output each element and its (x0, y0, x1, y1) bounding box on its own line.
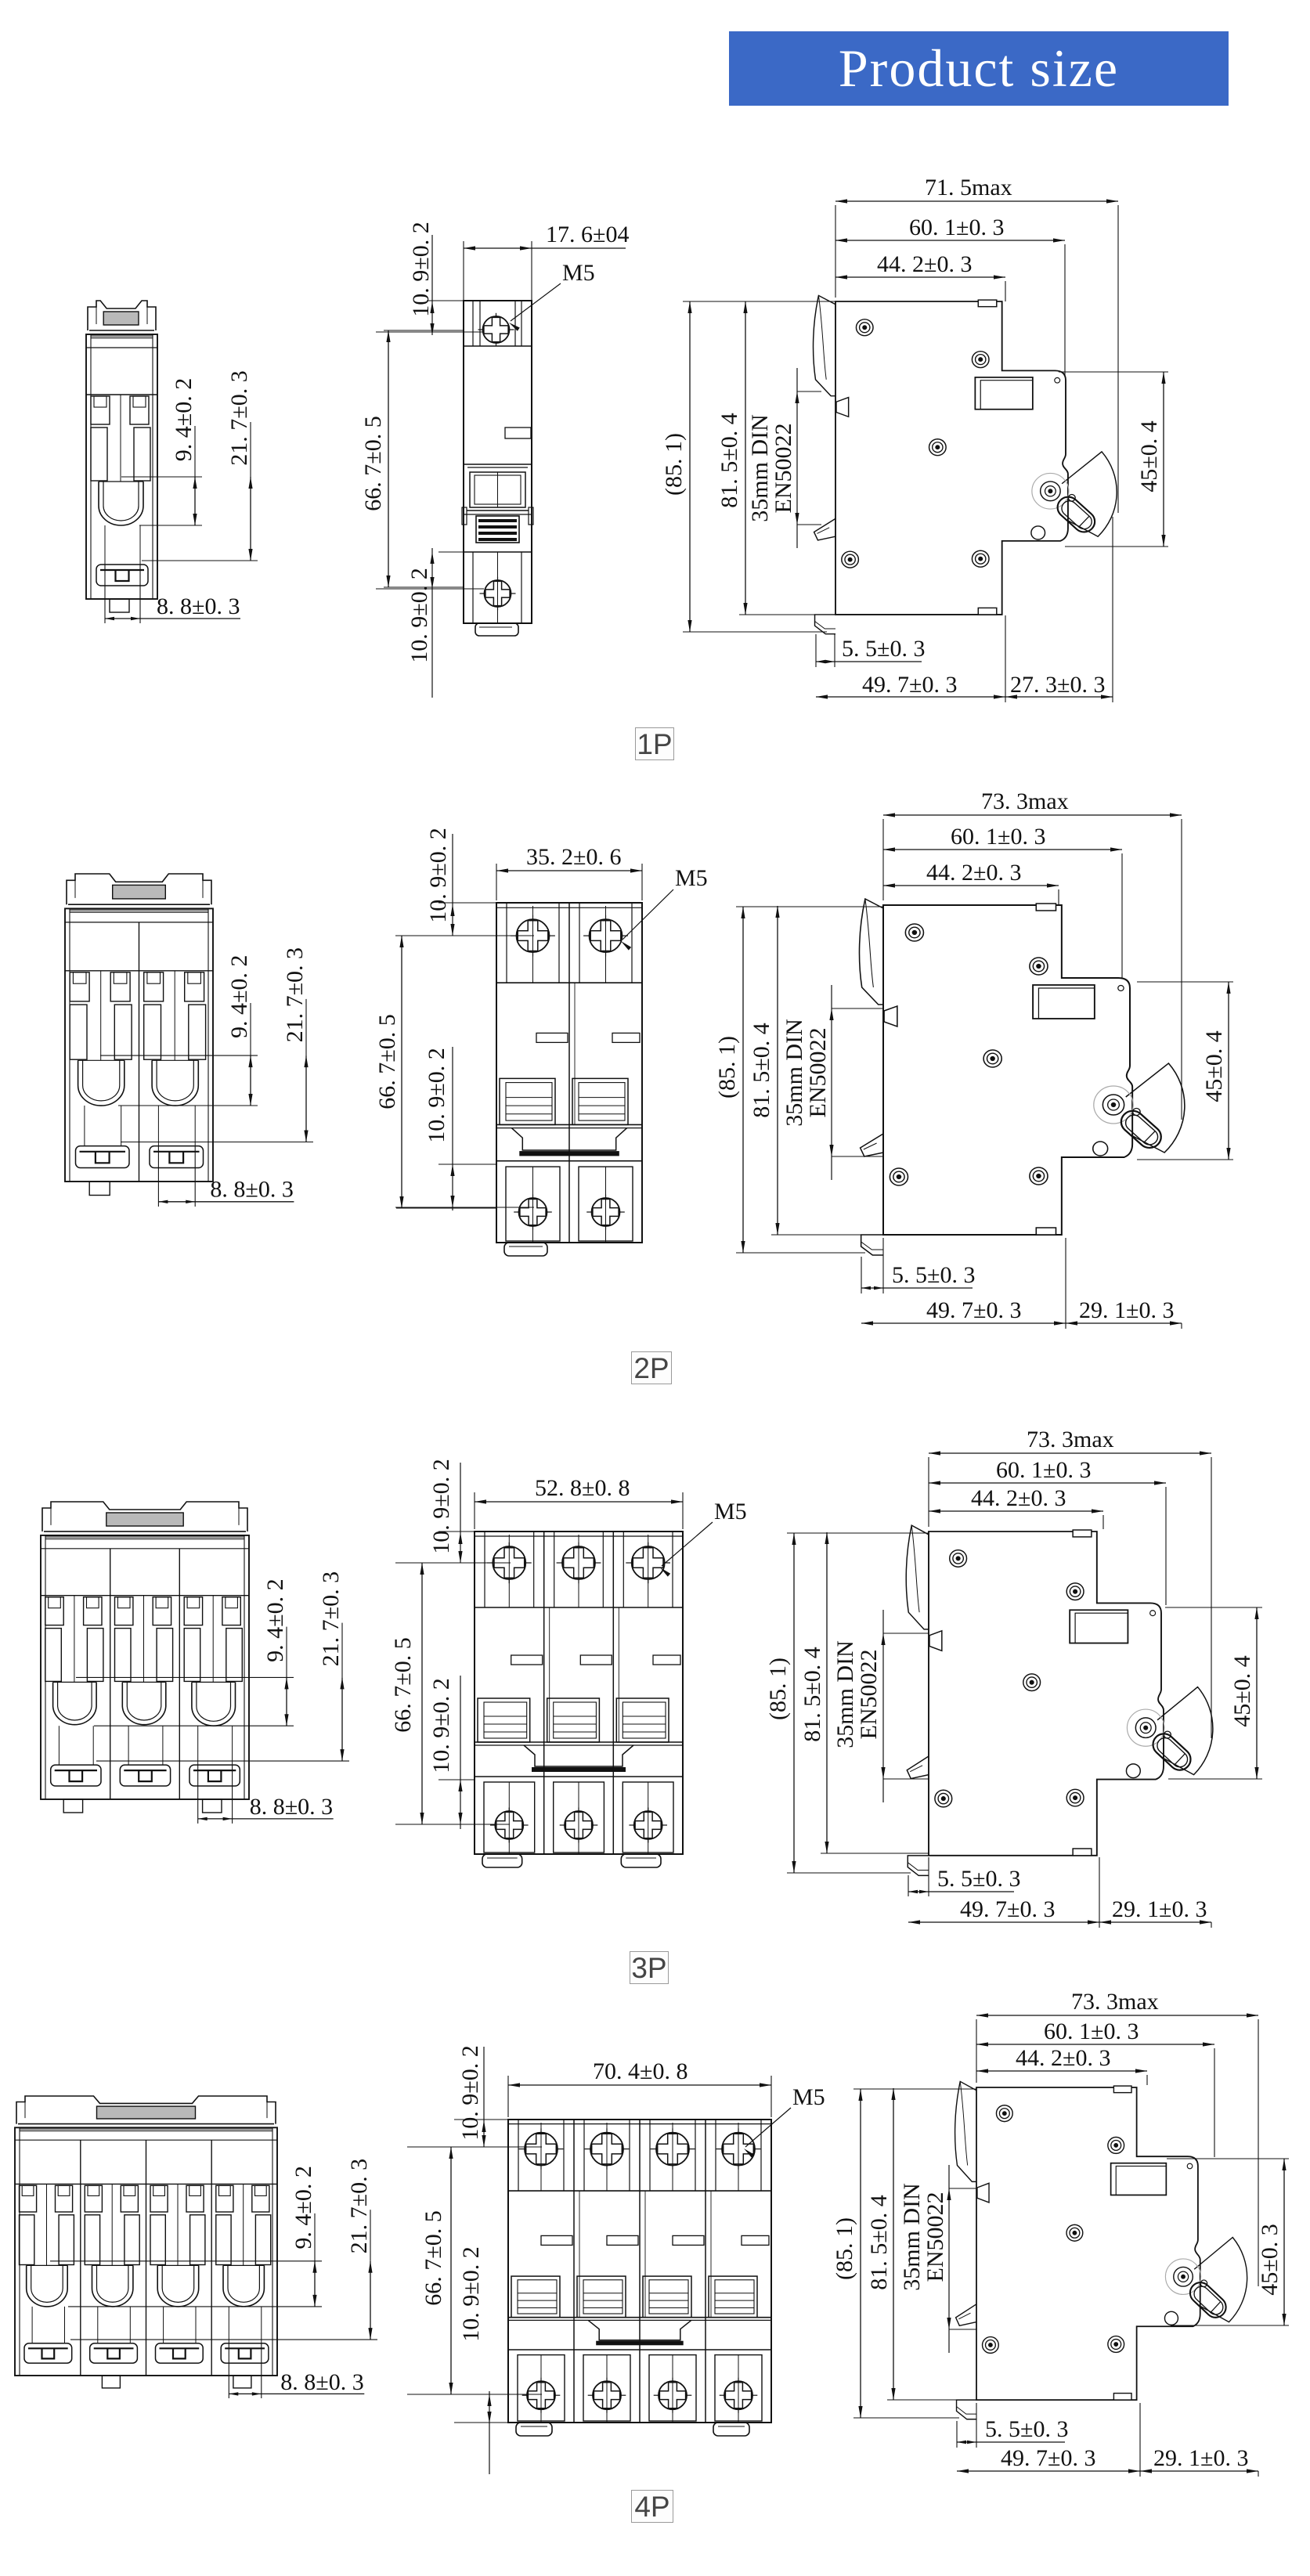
DIN clip foot (908, 1856, 929, 1876)
mounting tab (713, 2423, 749, 2436)
svg-text:66. 7±0. 5: 66. 7±0. 5 (374, 1014, 400, 1109)
bottom tab (233, 2376, 251, 2388)
lower terminal block (506, 1167, 560, 1241)
svg-text:8. 8±0. 3: 8. 8±0. 3 (280, 2369, 363, 2395)
4P front dims (507, 2076, 509, 2117)
dim 9.4 (121, 476, 202, 478)
bottom notch (1073, 1849, 1092, 1856)
svg-text:81. 5±0. 4: 81. 5±0. 4 (799, 1647, 825, 1741)
rivet 5 (972, 550, 989, 567)
arc chute stack (500, 1078, 555, 1124)
rivet 5 (1108, 2336, 1124, 2353)
1P front view (464, 301, 532, 623)
arc chute stack (643, 2276, 691, 2318)
terminal screw top (483, 316, 510, 343)
svg-text:(85. 1): (85. 1) (765, 1658, 791, 1720)
svg-text:35. 2±0. 6: 35. 2±0. 6 (526, 844, 621, 870)
rivet 4 (935, 1790, 952, 1807)
toggle sector (1126, 1063, 1185, 1153)
4P side view (955, 2081, 1247, 2419)
DIN clip foot (957, 2400, 976, 2419)
svg-text:5. 5±0. 3: 5. 5±0. 3 (985, 2416, 1068, 2442)
4P side dims (853, 2088, 976, 2090)
svg-text:49. 7±0. 3: 49. 7±0. 3 (1001, 2445, 1095, 2471)
svg-text:5. 5±0. 3: 5. 5±0. 3 (937, 1866, 1020, 1892)
top notch (1036, 904, 1056, 911)
DIN rail clip top hook (859, 899, 883, 1005)
svg-text:M5: M5 (562, 260, 595, 286)
rivet 1 (950, 1550, 967, 1568)
svg-text:5. 5±0. 3: 5. 5±0. 3 (892, 1262, 975, 1288)
dim 21.7 (142, 560, 258, 561)
bottom tab (63, 1799, 82, 1813)
top notch (1113, 2086, 1131, 2093)
vent slots (536, 1033, 568, 1042)
toggle handle (1117, 1106, 1166, 1153)
lower terminal block (518, 2355, 565, 2421)
latch tabs (70, 972, 89, 1001)
terminal screw bottom (485, 580, 511, 607)
terminal channels (184, 1629, 200, 1682)
toggle sector (1194, 2237, 1247, 2322)
svg-text:45±0. 4: 45±0. 4 (1136, 420, 1162, 492)
dim 21.7 (121, 1142, 313, 1143)
svg-text:66. 7±0. 5: 66. 7±0. 5 (360, 416, 386, 511)
terminal channels (144, 1005, 161, 1059)
mounting tab (621, 1854, 661, 1867)
mounting tab (516, 2423, 552, 2436)
svg-text:60. 1±0. 3: 60. 1±0. 3 (951, 824, 1045, 850)
svg-text:60. 1±0. 3: 60. 1±0. 3 (1044, 2019, 1139, 2044)
DIN clip (88, 301, 156, 330)
bottom notch (1113, 2394, 1131, 2401)
DIN clip foot (861, 1235, 883, 1255)
svg-text:29. 1±0. 3: 29. 1±0. 3 (1153, 2445, 1248, 2471)
DIN rail clip top hook (906, 1525, 929, 1629)
terminal channels (70, 1005, 87, 1059)
3P side dims (787, 1532, 929, 1534)
svg-text:45±0. 4: 45±0. 4 (1201, 1030, 1227, 1102)
terminal channels (85, 2215, 99, 2265)
wire loop (192, 1682, 236, 1726)
lower terminal block (623, 1782, 673, 1853)
body outline (65, 908, 213, 1182)
rivet 1 (905, 924, 923, 941)
svg-text:45±0. 3: 45±0. 3 (1257, 2224, 1283, 2295)
svg-text:9. 4±0. 2: 9. 4±0. 2 (291, 2166, 316, 2249)
latch tabs (150, 2185, 168, 2212)
dim 9.4 (76, 1676, 294, 1678)
arc chute stack (572, 1078, 628, 1124)
dim 8.8 (197, 1765, 199, 1824)
svg-text:M5: M5 (714, 1499, 747, 1524)
svg-text:17. 6±04: 17. 6±04 (546, 222, 629, 247)
svg-text:44. 2±0. 3: 44. 2±0. 3 (971, 1485, 1066, 1511)
pole divider (573, 2120, 575, 2423)
toggle handle (1053, 492, 1099, 536)
svg-text:60. 1±0. 3: 60. 1±0. 3 (996, 1457, 1091, 1483)
bottom tab (102, 2376, 120, 2388)
svg-text:10. 9±0. 2: 10. 9±0. 2 (425, 828, 451, 922)
label window (1111, 2163, 1167, 2195)
svg-text:35mm DIN: 35mm DIN (781, 1019, 807, 1127)
bottom block (24, 2343, 72, 2363)
DIN clip (67, 874, 211, 904)
bottom tab (203, 1799, 222, 1813)
terminal channels (91, 428, 107, 481)
svg-text:9. 4±0. 2: 9. 4±0. 2 (262, 1578, 288, 1661)
terminal screw (590, 2133, 623, 2166)
svg-text:M5: M5 (792, 2084, 825, 2110)
bottom block (90, 2343, 138, 2363)
2P front dims (496, 864, 497, 900)
svg-text:52. 8±0. 8: 52. 8±0. 8 (535, 1475, 630, 1501)
svg-text:66. 7±0. 5: 66. 7±0. 5 (390, 1637, 416, 1732)
wire loop (53, 1682, 97, 1724)
svg-text:44. 2±0. 3: 44. 2±0. 3 (926, 860, 1021, 886)
toggle handle (476, 516, 519, 543)
toggle tie bar (524, 1745, 633, 1766)
rivet 1 (856, 319, 873, 336)
svg-text:21. 7±0. 3: 21. 7±0. 3 (226, 370, 252, 465)
svg-text:(85. 1): (85. 1) (714, 1036, 740, 1099)
svg-text:81. 5±0. 4: 81. 5±0. 4 (716, 413, 742, 507)
DIN rail clip top hook (814, 295, 835, 395)
DIN clip foot (815, 615, 835, 634)
rivet 3 (983, 1050, 1001, 1067)
toggle sector (1157, 1687, 1213, 1775)
3P side view (906, 1525, 1213, 1875)
latch tabs (184, 1597, 202, 1625)
svg-text:35mm DIN: 35mm DIN (832, 1640, 858, 1748)
DIN clip latch (977, 2183, 989, 2203)
arc chute stack (478, 1698, 530, 1742)
3P front view (475, 1532, 683, 1854)
DIN clip latch (884, 1006, 897, 1026)
svg-text:EN50022: EN50022 (856, 1650, 882, 1740)
1P front dims (463, 241, 464, 301)
svg-text:EN50022: EN50022 (922, 2192, 948, 2282)
bottom block (51, 1765, 101, 1786)
svg-text:71. 5max: 71. 5max (925, 175, 1012, 200)
terminal channels (150, 2215, 165, 2265)
2P side dims (736, 906, 883, 907)
svg-text:44. 2±0. 3: 44. 2±0. 3 (877, 251, 972, 277)
bottom notch (978, 608, 997, 615)
lower terminal (472, 552, 474, 623)
dim 21.7 (70, 2339, 377, 2340)
svg-text:9. 4±0. 2: 9. 4±0. 2 (171, 378, 197, 461)
rivet 3 (1023, 1674, 1041, 1691)
1P side dims (683, 301, 835, 302)
latch tabs (144, 972, 164, 1001)
mounting tab (482, 1854, 522, 1867)
rivet 5 (1030, 1167, 1048, 1185)
4P front view (508, 2120, 771, 2423)
DIN clip lower hook (814, 518, 835, 540)
arc chute stack (577, 2276, 626, 2318)
toggle tie bar (511, 1128, 626, 1150)
DIN clip lower hook (956, 2304, 976, 2325)
svg-text:10. 9±0. 2: 10. 9±0. 2 (428, 1678, 454, 1773)
lower terminal block (715, 2355, 762, 2421)
bottom block (156, 2343, 204, 2363)
wire loop (78, 1060, 125, 1106)
pole divider (612, 1532, 614, 1854)
DIN clip latch (836, 398, 849, 417)
body outline (15, 2127, 277, 2376)
rivet 1 (996, 2105, 1012, 2122)
svg-text:35mm DIN: 35mm DIN (899, 2183, 925, 2291)
pole divider (543, 1532, 545, 1854)
bottom block (96, 565, 148, 586)
toggle tie bar (588, 2320, 691, 2340)
DIN clip lower hook (861, 1134, 883, 1156)
terminal channels (115, 1629, 132, 1682)
wire loop (223, 2265, 264, 2306)
dim 8.8 (228, 2343, 229, 2398)
wire loop (27, 2265, 67, 2307)
svg-text:8. 8±0. 3: 8. 8±0. 3 (250, 1794, 333, 1820)
svg-text:81. 5±0. 4: 81. 5±0. 4 (749, 1023, 774, 1117)
svg-text:45±0. 4: 45±0. 4 (1229, 1655, 1255, 1726)
bottom block (189, 1765, 240, 1786)
dim 21.7 (96, 1760, 349, 1762)
svg-text:70. 4±0. 8: 70. 4±0. 8 (593, 2058, 687, 2084)
dim 8.8 (104, 565, 106, 623)
rivet 2 (1108, 2138, 1124, 2154)
svg-text:60. 1±0. 3: 60. 1±0. 3 (909, 215, 1004, 240)
svg-text:10. 9±0. 2: 10. 9±0. 2 (457, 2045, 483, 2140)
title banner (729, 31, 1229, 106)
body outline (86, 334, 157, 599)
svg-text:81. 5±0. 4: 81. 5±0. 4 (866, 2195, 892, 2289)
latch tabs (216, 2185, 233, 2212)
terminal channels (20, 2215, 34, 2265)
terminal screw (722, 2133, 755, 2166)
svg-text:49. 7±0. 3: 49. 7±0. 3 (926, 1297, 1021, 1323)
svg-text:8. 8±0. 3: 8. 8±0. 3 (157, 593, 240, 619)
pole divider (639, 2120, 641, 2423)
rivet 3 (1066, 2224, 1083, 2241)
svg-text:8. 8±0. 3: 8. 8±0. 3 (210, 1177, 293, 1203)
svg-text:M5: M5 (675, 865, 708, 891)
rivet 2 (1030, 958, 1048, 975)
svg-text:10. 9±0. 2: 10. 9±0. 2 (428, 1459, 454, 1553)
terminal screw (517, 919, 550, 952)
2P side view (859, 899, 1184, 1255)
rivet 4 (842, 551, 859, 568)
rivet 2 (1066, 1583, 1084, 1600)
body outline (41, 1535, 249, 1799)
pole divider (568, 903, 570, 1243)
svg-text:5. 5±0. 3: 5. 5±0. 3 (842, 636, 925, 662)
lower terminal block (583, 2355, 630, 2421)
vent slots (541, 2235, 572, 2245)
DIN rail clip top hook (955, 2081, 976, 2181)
arc chute stack (616, 1698, 669, 1742)
svg-text:73. 3max: 73. 3max (981, 788, 1069, 814)
terminal channels (216, 2215, 231, 2265)
latch tabs (91, 396, 110, 424)
terminal screw (656, 2133, 689, 2166)
svg-text:73. 3max: 73. 3max (1027, 1427, 1114, 1452)
latch tabs (115, 1597, 133, 1625)
bottom block (150, 1146, 204, 1168)
svg-text:9. 4±0. 2: 9. 4±0. 2 (226, 955, 252, 1038)
svg-text:49. 7±0. 3: 49. 7±0. 3 (862, 672, 957, 698)
top notch (978, 300, 997, 307)
svg-text:10. 9±0. 2: 10. 9±0. 2 (408, 222, 434, 316)
vent slots (511, 1655, 543, 1665)
bottom tab (110, 599, 129, 612)
svg-text:21. 7±0. 3: 21. 7±0. 3 (318, 1571, 344, 1666)
toggle handle (1149, 1730, 1195, 1775)
bottom block (76, 1146, 130, 1168)
lower terminal block (554, 1782, 604, 1853)
rivet 2 (972, 352, 989, 368)
dim 9.4 (100, 1055, 258, 1056)
bottom block (221, 2343, 269, 2363)
bottom block (120, 1765, 170, 1786)
svg-text:10. 9±0. 2: 10. 9±0. 2 (424, 1048, 449, 1142)
top notch (1073, 1530, 1092, 1537)
terminal screw (525, 2133, 558, 2166)
svg-text:10. 9±0. 2: 10. 9±0. 2 (406, 568, 432, 662)
lower terminal block (579, 1167, 633, 1241)
lower terminal block (484, 1782, 535, 1853)
3P front dims (474, 1492, 475, 1529)
latch tabs (20, 2185, 37, 2212)
rivet 4 (890, 1168, 908, 1185)
arc chute stack (511, 2276, 560, 2318)
wire loop (92, 2265, 133, 2307)
dim 8.8 (157, 1146, 159, 1207)
svg-text:21. 7±0. 3: 21. 7±0. 3 (346, 2159, 372, 2253)
terminal channels (45, 1629, 62, 1682)
svg-text:29. 1±0. 3: 29. 1±0. 3 (1112, 1896, 1207, 1922)
rivet 5 (1066, 1789, 1084, 1806)
svg-text:EN50022: EN50022 (805, 1028, 831, 1118)
svg-text:(85. 1): (85. 1) (832, 2217, 857, 2280)
svg-text:10. 9±0. 2: 10. 9±0. 2 (458, 2246, 484, 2341)
svg-text:66. 7±0. 5: 66. 7±0. 5 (420, 2210, 446, 2305)
DIN clip (42, 1502, 247, 1532)
svg-text:44. 2±0. 3: 44. 2±0. 3 (1016, 2045, 1110, 2071)
bottom notch (1036, 1228, 1056, 1235)
wire loop (157, 2265, 199, 2307)
wire loop (152, 1060, 198, 1106)
pole count labels (635, 727, 674, 760)
svg-text:EN50022: EN50022 (770, 424, 796, 514)
DIN clip lower hook (907, 1756, 929, 1779)
svg-text:29. 1±0. 3: 29. 1±0. 3 (1079, 1297, 1174, 1323)
arc chute stack (709, 2276, 757, 2318)
svg-text:27. 3±0. 3: 27. 3±0. 3 (1010, 672, 1105, 698)
wire loop (99, 482, 143, 525)
bottom tab (89, 1182, 110, 1196)
toggle zone (464, 464, 532, 465)
label window (1070, 1610, 1128, 1643)
mounting tab (475, 623, 518, 636)
toggle sector (1062, 452, 1117, 536)
wire loop (122, 1682, 166, 1724)
1P side view (814, 295, 1117, 633)
rivet 3 (929, 439, 947, 456)
terminal screw (632, 1546, 665, 1579)
label window (1033, 985, 1095, 1019)
latch tabs (85, 2185, 102, 2212)
dim 9.4 (50, 2260, 322, 2262)
pole divider (705, 2120, 706, 2423)
rivet 4 (983, 2337, 999, 2354)
vent slot (505, 428, 531, 438)
terminal screw (493, 1546, 525, 1579)
svg-text:49. 7±0. 3: 49. 7±0. 3 (960, 1896, 1055, 1922)
2P front view (496, 903, 642, 1243)
terminal screw (590, 919, 623, 952)
svg-text:21. 7±0. 3: 21. 7±0. 3 (282, 947, 308, 1042)
svg-text:(85. 1): (85. 1) (661, 433, 687, 496)
terminal screw (562, 1546, 595, 1579)
arc chute stack (547, 1698, 600, 1742)
mounting tab (504, 1243, 547, 1256)
lower terminal block (649, 2355, 696, 2421)
DIN clip latch (929, 1631, 942, 1651)
svg-text:35mm DIN: 35mm DIN (747, 414, 773, 522)
svg-text:73. 3max: 73. 3max (1071, 1989, 1159, 2015)
DIN clip (16, 2096, 276, 2124)
latch tabs (45, 1597, 63, 1625)
toggle handle (1185, 2278, 1230, 2322)
label window (975, 377, 1033, 409)
